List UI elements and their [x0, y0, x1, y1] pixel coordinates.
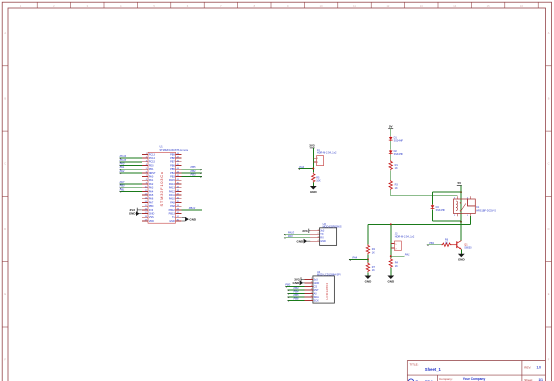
wire end marker	[120, 188, 122, 189]
wire PA4 node	[298, 168, 313, 170]
wire R3 down	[390, 190, 392, 196]
junction J3 tap	[390, 255, 392, 257]
U4 pins 1-7	[305, 278, 320, 302]
svg-text:A: A	[4, 31, 6, 35]
wire net PA0 to U1	[120, 165, 142, 167]
wire end marker	[120, 173, 122, 174]
svg-text:GND: GND	[293, 281, 301, 285]
svg-text:B: B	[548, 96, 550, 100]
wire 5V rail to Q1 collector	[460, 185, 462, 240]
svg-text:TITLE:: TITLE:	[410, 362, 419, 366]
resistor R4 1K	[389, 258, 398, 268]
diode D1 SS34HF	[389, 136, 404, 142]
wire end marker	[298, 169, 300, 170]
svg-text:S8050: S8050	[464, 246, 472, 249]
connector J4 HDR-M-2.54_1x2	[313, 149, 337, 166]
svg-text:PA0: PA0	[120, 162, 125, 166]
junction loop bottom on collector rail	[460, 221, 462, 223]
wire net PB3 from U1	[182, 176, 202, 178]
power 5V flag top of diode chain	[388, 124, 393, 128]
wire net PA9 to U3.RX	[284, 237, 310, 239]
svg-text:HRS1BF-DC5V-S: HRS1BF-DC5V-S	[476, 209, 496, 212]
svg-text:1K: 1K	[395, 167, 398, 170]
svg-text:PA12: PA12	[169, 190, 176, 193]
svg-text:SS34HF: SS34HF	[394, 140, 404, 143]
svg-text:PA1: PA1	[120, 165, 125, 169]
wire end marker	[120, 191, 122, 192]
svg-text:PA7: PA7	[120, 180, 125, 184]
svg-text:1K: 1K	[395, 265, 398, 268]
wire diode loop top	[433, 191, 462, 193]
wire end marker	[284, 238, 286, 239]
wire end marker	[288, 293, 290, 294]
svg-text:PB3: PB3	[294, 286, 299, 290]
wire relay contact down	[470, 216, 472, 224]
svg-text:PA13: PA13	[169, 187, 176, 190]
svg-text:SS34HF: SS34HF	[394, 153, 404, 156]
wire diode loop bottom	[433, 220, 462, 222]
wire net PB3 to U4	[288, 289, 305, 291]
svg-text:PA1: PA1	[405, 252, 410, 256]
svg-text:PA9: PA9	[170, 201, 175, 204]
resistor R6 1K	[441, 239, 451, 247]
resistor R2 1K	[366, 244, 375, 254]
ground GND flag at U4 pin2	[293, 281, 305, 286]
svg-text:PB4: PB4	[294, 289, 299, 293]
wire down to R2	[367, 224, 369, 244]
resistor R5 10K	[312, 173, 321, 183]
wire Q1 emitter to GND	[460, 249, 462, 254]
wire end marker	[120, 166, 122, 167]
svg-text:PB6: PB6	[170, 164, 175, 167]
svg-text:HDR-M-2.54_1x2: HDR-M-2.54_1x2	[395, 235, 415, 238]
svg-text:REV:: REV:	[524, 366, 531, 370]
svg-text:MOD-LCD12864-SPI: MOD-LCD12864-SPI	[317, 273, 341, 276]
svg-text:PA4: PA4	[352, 256, 357, 260]
wire net PB1 to R6	[427, 244, 442, 246]
wire D1 to D2	[390, 141, 392, 150]
svg-text:PA1: PA1	[149, 179, 154, 182]
svg-text:D: D	[4, 227, 6, 231]
svg-text:PC15: PC15	[149, 161, 156, 164]
diode D4 SS34HF flyback	[431, 205, 446, 212]
wire end marker	[200, 173, 202, 174]
wire R2 to R7	[367, 254, 369, 262]
svg-text:PB5: PB5	[191, 165, 196, 169]
svg-text:PA2: PA2	[120, 169, 125, 173]
svg-text:3V3: 3V3	[149, 209, 154, 212]
svg-text:PA5: PA5	[149, 194, 154, 197]
ground GND flag at U3 pin4	[297, 239, 311, 244]
wire net PC14 to U1	[120, 157, 142, 159]
svg-text:PB5: PB5	[294, 293, 299, 297]
svg-text:A: A	[548, 31, 550, 35]
module U3 MOD-ESP8266	[320, 223, 342, 246]
svg-text:PA14: PA14	[169, 183, 176, 186]
wire end marker	[285, 286, 287, 287]
wire end marker	[200, 177, 202, 178]
EasyEDA logo (cut off)	[408, 379, 433, 381]
wire end marker	[349, 259, 351, 260]
svg-text:PA7: PA7	[149, 201, 154, 204]
svg-text:PB0: PB0	[120, 184, 125, 188]
wire divider tap out	[349, 258, 368, 260]
wire end marker	[200, 169, 202, 170]
wire end marker	[427, 245, 429, 246]
svg-text:Company:: Company:	[439, 377, 453, 381]
svg-text:PD0: PD0	[149, 164, 154, 167]
ground GND below R7	[365, 276, 373, 284]
title block	[407, 361, 545, 381]
wire net PB0 to U4	[285, 285, 304, 287]
svg-text:NRST: NRST	[149, 172, 156, 175]
svg-text:PB3: PB3	[170, 176, 175, 179]
svg-text:Sheet_1: Sheet_1	[425, 367, 442, 372]
svg-text:3V3: 3V3	[309, 144, 315, 148]
wire net PA1 to U1	[120, 168, 142, 170]
wire R5 to GND	[312, 183, 314, 186]
wire R7 to GND	[367, 272, 369, 275]
svg-text:PB3: PB3	[191, 173, 196, 177]
relay K1 HRS1BF-DC5V-S	[454, 196, 497, 217]
svg-text:SS34HF: SS34HF	[436, 209, 446, 212]
svg-text:GND: GND	[320, 240, 326, 243]
U3 pins 1-4	[310, 229, 326, 243]
svg-text:1K: 1K	[395, 187, 398, 190]
svg-text:VSS: VSS	[149, 216, 154, 219]
svg-text:PB12: PB12	[189, 206, 196, 210]
wire end marker	[288, 290, 290, 291]
svg-text:PB7: PB7	[170, 161, 175, 164]
svg-text:PC14: PC14	[149, 157, 156, 160]
wire net PC15 to U1	[120, 161, 142, 163]
svg-text:1K: 1K	[372, 251, 375, 254]
svg-text:GND: GND	[189, 217, 197, 221]
svg-text:PA15: PA15	[169, 179, 176, 182]
wire end marker	[284, 234, 286, 235]
svg-text:GND: GND	[149, 213, 155, 216]
svg-text:PB8: PB8	[170, 157, 175, 160]
op microcontroller U1 STM32F103C8T6	[148, 146, 189, 224]
wire end marker	[120, 158, 122, 159]
svg-text:PC13: PC13	[149, 153, 156, 156]
wire J3 tap out	[391, 255, 405, 257]
wire loop left lower	[432, 209, 434, 221]
resistor R1 1K	[389, 160, 398, 170]
svg-text:5V: 5V	[457, 181, 461, 185]
wire end marker	[288, 300, 290, 301]
diode D2 SS34HF	[389, 150, 404, 156]
svg-text:PB4: PB4	[191, 169, 196, 173]
svg-text:PB9: PB9	[170, 153, 175, 156]
wire chain to relay coil pin	[391, 195, 458, 197]
wire net PB6 to U4	[288, 299, 305, 301]
wire relay contact horizontal	[368, 223, 471, 225]
svg-text:VDD: VDD	[149, 220, 154, 223]
svg-text:1K: 1K	[372, 269, 375, 272]
svg-text:PA9: PA9	[288, 234, 293, 238]
svg-text:PA11: PA11	[169, 194, 175, 197]
svg-text:PB0: PB0	[285, 282, 290, 286]
wire loop left upper	[432, 192, 434, 204]
svg-text:E: E	[548, 292, 550, 296]
svg-text:PA6: PA6	[149, 198, 154, 201]
svg-text:PA2: PA2	[149, 183, 154, 186]
svg-text:GND: GND	[365, 279, 373, 283]
svg-text:PB1: PB1	[429, 241, 434, 245]
svg-text:3V3: 3V3	[302, 229, 308, 233]
resistor R3 1K	[389, 180, 398, 190]
svg-text:PA10: PA10	[169, 198, 176, 201]
svg-text:10K: 10K	[316, 180, 321, 183]
svg-text:GND: GND	[297, 239, 305, 243]
svg-text:SCK: SCK	[314, 299, 319, 302]
wire net PB0 to U1	[120, 187, 142, 189]
wire end marker	[288, 297, 290, 298]
svg-text:C: C	[4, 162, 6, 166]
module U4 MOD-LCD12864-SPI	[313, 271, 341, 303]
svg-text:PD1: PD1	[149, 168, 154, 171]
svg-text:PB6: PB6	[294, 296, 299, 300]
svg-text:1K: 1K	[445, 242, 448, 245]
svg-text:PC15: PC15	[120, 158, 127, 162]
svg-text:MOD-ESP8266S: MOD-ESP8266S	[323, 225, 342, 228]
wire net PB12 from U1	[182, 209, 202, 211]
svg-text:PA10: PA10	[288, 230, 295, 234]
svg-text:5V: 5V	[389, 124, 393, 128]
ground GND flag at U1 right	[182, 217, 197, 221]
svg-text:D: D	[548, 227, 550, 231]
wire 3V3 to R5	[312, 148, 314, 173]
wire net PB1 to U1	[120, 190, 142, 192]
wire net PB5 from U1	[182, 168, 202, 170]
svg-text:E: E	[4, 292, 6, 296]
svg-text:PB13: PB13	[169, 213, 176, 216]
svg-text:PA0: PA0	[149, 176, 154, 179]
ground GND below R5	[310, 186, 318, 194]
power 3V3 flag above J4	[309, 144, 315, 148]
power 5V flag above relay	[457, 181, 462, 185]
resistor R7 1K	[366, 262, 375, 272]
svg-text:LCD12864: LCD12864	[325, 283, 329, 300]
svg-text:PB12: PB12	[169, 209, 176, 212]
wire end marker	[120, 184, 122, 185]
svg-text:B: B	[4, 96, 6, 100]
wire net PA7 to U1	[120, 183, 142, 185]
svg-text:PA3: PA3	[149, 187, 154, 190]
ground GND below R4	[387, 276, 395, 284]
svg-text:GND: GND	[129, 212, 137, 216]
wire net PB4 from U1	[182, 172, 202, 174]
U1 pins left side with numbers and names	[142, 153, 156, 223]
wire R4 to GND	[390, 268, 392, 276]
svg-text:PA8: PA8	[170, 205, 175, 208]
power 3V3 flag at U1 left	[130, 208, 142, 212]
ground GND below Q1	[458, 254, 466, 262]
svg-text:STM32F103Cx: STM32F103Cx	[159, 171, 164, 206]
wire D2 to R1	[390, 155, 392, 161]
wire net PA2 to U1	[120, 172, 142, 174]
connector J3 HDR-M-2.54_1x2	[391, 233, 415, 251]
wire net PA10 to U3.TX	[284, 233, 310, 235]
svg-text:GND: GND	[310, 190, 318, 194]
svg-text:C: C	[548, 162, 550, 166]
transistor Q1 S8050 NPN	[452, 241, 473, 250]
junction divider tap	[367, 258, 369, 260]
svg-text:PB1: PB1	[120, 187, 125, 191]
svg-text:PB5: PB5	[170, 168, 175, 171]
svg-text:PC14: PC14	[120, 154, 127, 158]
svg-text:PA4: PA4	[299, 165, 304, 169]
svg-text:GND: GND	[387, 279, 395, 283]
svg-text:GND: GND	[458, 258, 466, 262]
svg-text:GND: GND	[169, 220, 175, 223]
svg-text:PB0: PB0	[149, 205, 154, 208]
power 3V3 flag at U4 pin1	[294, 277, 304, 281]
wire end marker	[120, 169, 122, 170]
svg-text:1.0: 1.0	[537, 366, 542, 370]
svg-text:STM32F103C8T6 & more: STM32F103C8T6 & more	[160, 149, 189, 152]
junction at J4/R5 node	[312, 168, 314, 170]
wire header branch vertical	[390, 224, 392, 258]
power 3V3 flag at U3 pin1	[302, 229, 310, 233]
svg-text:PB4: PB4	[170, 172, 175, 175]
wire net PB5 to U4	[288, 296, 305, 298]
ground GND flag at U1 left	[129, 211, 142, 216]
wire end marker	[120, 162, 122, 163]
wire R1 to R3	[390, 170, 392, 180]
svg-text:PA4: PA4	[149, 190, 154, 193]
wire 5V to D1	[390, 129, 392, 137]
U1 pins right side with numbers and names	[169, 153, 182, 223]
junction header branch	[390, 223, 392, 225]
wire net PB4 to U4	[288, 292, 305, 294]
junction loop top on 5V rail	[460, 191, 462, 193]
svg-text:HDR-M-2.54_1x2: HDR-M-2.54_1x2	[317, 152, 337, 155]
svg-text:Your Company: Your Company	[463, 377, 486, 381]
